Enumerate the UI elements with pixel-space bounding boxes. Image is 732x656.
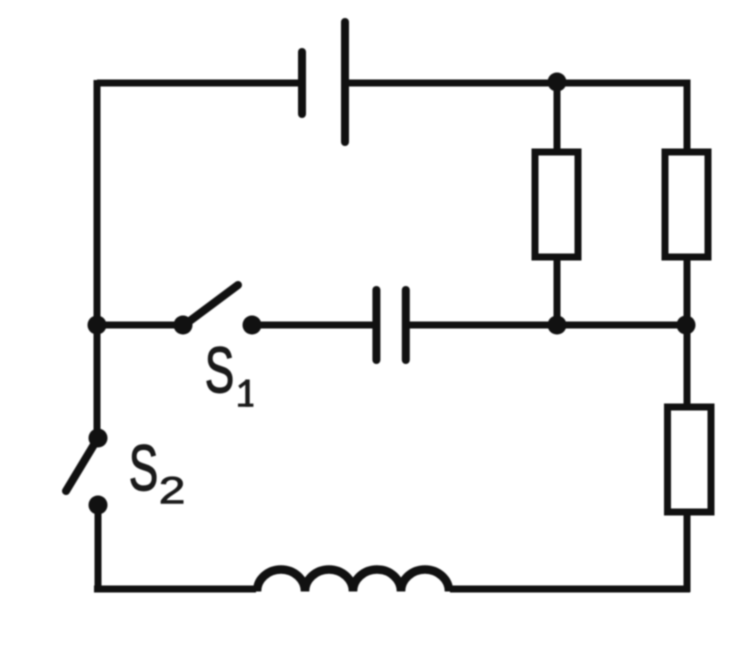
- wire stub from top junction down to resistor R1: [554, 83, 561, 152]
- node: middle junction below R1: [548, 316, 567, 335]
- capacitor C1 left plate: [372, 290, 380, 360]
- label S2 letter S: [131, 445, 156, 491]
- node: switch S2 upper terminal: [89, 429, 108, 448]
- label S1 subscript 1: [238, 380, 253, 407]
- capacitor C1 right plate: [402, 290, 410, 360]
- label S1 letter S: [207, 347, 232, 393]
- wire top-right from battery to top-right corner: [345, 80, 691, 87]
- switch S2 blade: [66, 438, 98, 491]
- wire from R2 down to middle junction: [684, 257, 691, 325]
- battery B1 short plate: [298, 52, 306, 114]
- node: right middle junction: [677, 316, 696, 335]
- wire middle-left from left rail to switch S1: [97, 322, 183, 329]
- node: top junction above R1: [548, 73, 567, 92]
- wire stub from R1 down to middle wire: [554, 257, 561, 325]
- resistor R1 body: [535, 152, 578, 257]
- node: switch S2 lower terminal: [89, 496, 108, 515]
- wire from inductor to bottom-right corner: [450, 586, 690, 593]
- node: switch S1 left terminal: [174, 316, 193, 335]
- resistor R3 body: [668, 407, 712, 512]
- switch S1 blade: [183, 285, 238, 326]
- wire right rail upper segment: [684, 80, 691, 153]
- wire from S1 to capacitor: [252, 322, 376, 329]
- node: switch S1 right terminal: [243, 316, 262, 335]
- wire from S2 lower terminal to bottom-left corner: [95, 505, 102, 592]
- wire left vertical: [94, 80, 101, 438]
- node: left middle junction: [88, 316, 107, 335]
- wire top-left from corner to battery: [97, 80, 302, 87]
- battery B1 tall plate: [341, 22, 349, 142]
- label S2 subscript 2: [161, 477, 183, 504]
- resistor R2 body: [665, 152, 708, 257]
- inductor L1: [257, 570, 449, 592]
- wire right rail from middle junction to resistor R3: [684, 325, 691, 408]
- wire bottom-left to inductor: [94, 586, 256, 593]
- wire right rail lower segment to bottom corner: [684, 512, 691, 592]
- wire middle-right from capacitor to right rail: [406, 322, 687, 329]
